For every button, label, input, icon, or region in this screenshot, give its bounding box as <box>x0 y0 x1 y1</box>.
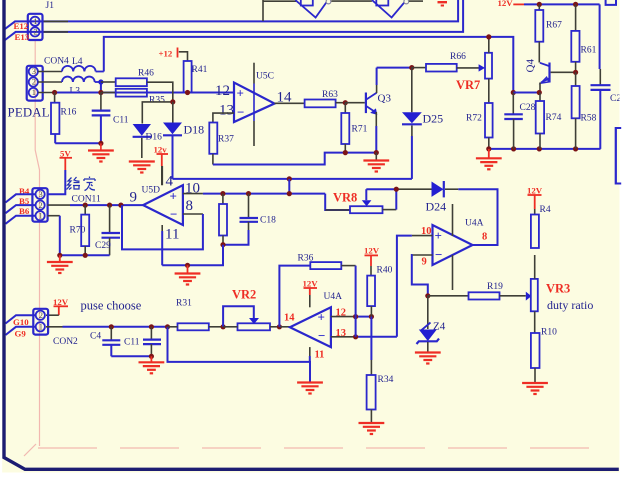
junction R61 top <box>573 2 578 7</box>
junction pin10 resistor <box>220 191 225 196</box>
capacitor C11b <box>143 327 161 357</box>
pink dashed revision line <box>38 447 606 449</box>
svg-text:U5D: U5D <box>142 186 161 196</box>
ground under CON11 bus <box>47 255 73 273</box>
svg-text:R67: R67 <box>546 21 562 31</box>
junction VR8 D24 <box>394 187 399 192</box>
junction Q3 emitter ground <box>374 150 379 155</box>
schmitt buffer gate 1 (cropped) <box>295 0 331 18</box>
junction rail to pin10 <box>287 176 292 181</box>
wire G9 diagonal <box>6 327 36 335</box>
resistor R67 <box>535 4 543 62</box>
wire net E13 second top wire <box>5 0 463 40</box>
junction D25 top <box>409 65 414 70</box>
wire CON11 pin2 to U5D pin9 <box>48 204 70 206</box>
svg-text:C11: C11 <box>113 116 129 126</box>
wire U4A pin10 input <box>397 236 433 337</box>
wire CON11 pin1 to ground <box>48 215 60 217</box>
potentiometer VR3 <box>526 255 538 333</box>
resistor R36 <box>279 262 355 337</box>
svg-text:puse choose: puse choose <box>81 299 142 313</box>
wire CON4 pin3 stub <box>38 71 62 73</box>
junction pin13 riser <box>353 334 358 339</box>
svg-text:R19: R19 <box>487 282 503 292</box>
junction C4 top <box>109 324 114 329</box>
node B junction <box>98 90 103 95</box>
svg-text:R37: R37 <box>218 135 234 145</box>
wire 12v to U5D V+ <box>161 166 163 185</box>
svg-text:R34: R34 <box>378 375 394 385</box>
svg-text:3: 3 <box>39 189 43 199</box>
resistor R41 <box>184 61 192 93</box>
wire VR8 node to D24 <box>366 188 431 190</box>
svg-text:Z4: Z4 <box>433 321 446 333</box>
wire D16 link <box>142 102 173 124</box>
resistor R34 <box>367 375 376 423</box>
resistor R4 <box>531 215 539 249</box>
svg-text:12: 12 <box>215 83 230 99</box>
svg-text:12V: 12V <box>364 246 380 256</box>
diode D16 <box>133 124 151 158</box>
ground under C11 <box>88 143 114 161</box>
wire B5 diagonal <box>6 205 36 213</box>
capacitor C28 <box>504 93 523 149</box>
ground under U4A lower <box>297 383 323 394</box>
svg-text:Q4: Q4 <box>525 59 537 73</box>
junction C11b top <box>149 324 154 329</box>
svg-text:R10: R10 <box>541 328 557 338</box>
svg-text:2: 2 <box>39 310 43 320</box>
svg-text:U4A: U4A <box>465 219 484 229</box>
svg-text:VR3: VR3 <box>546 282 570 296</box>
op-amp U5D <box>143 185 183 225</box>
resistor R37 <box>209 123 217 165</box>
svg-text:8: 8 <box>186 198 194 214</box>
junction C29 top <box>107 203 112 208</box>
wire ground bus CON11 <box>60 254 110 256</box>
wire U4A pin13 <box>331 336 397 338</box>
svg-text:C28: C28 <box>520 103 536 113</box>
red power bar symbol top <box>438 2 448 5</box>
wire gate2 output <box>409 0 423 2</box>
svg-text:G10: G10 <box>13 317 29 327</box>
svg-text:9: 9 <box>130 190 138 206</box>
svg-text:12V: 12V <box>303 279 319 289</box>
resistor R40 <box>367 276 375 317</box>
cropped box bottom at top right <box>606 0 616 5</box>
svg-text:8: 8 <box>482 232 487 243</box>
inductor L3 <box>62 77 101 82</box>
capacitor C18 <box>223 194 258 245</box>
svg-text:D24: D24 <box>426 200 447 214</box>
wire 5V to CON11 pin3 <box>48 170 66 194</box>
op-amp U4A lower <box>290 307 331 347</box>
svg-text:R4: R4 <box>540 205 551 215</box>
supply rail pin4 wire <box>173 178 412 180</box>
svg-text:2: 2 <box>39 200 43 210</box>
junction bus C28 <box>486 146 491 151</box>
svg-text:3: 3 <box>32 66 36 76</box>
junction ground node <box>98 141 103 146</box>
wire Q3 collector rail <box>377 67 412 69</box>
svg-text:−: − <box>237 105 244 120</box>
ground bus right <box>489 148 601 150</box>
zener diode Z4 <box>417 296 440 353</box>
wire G9 signal to R31 <box>46 326 168 328</box>
junction R16 top <box>52 90 57 95</box>
ground symbol right bus <box>476 149 502 169</box>
wire between gates <box>331 0 372 2</box>
wire D25 top stub <box>411 68 413 113</box>
diode D25 <box>402 112 422 136</box>
wire J1 pin2 stub <box>43 31 69 33</box>
svg-text:11: 11 <box>165 227 179 243</box>
resistor R35 <box>101 89 147 97</box>
resistor R46 <box>101 78 173 102</box>
wire U5C output pin14 <box>275 102 305 104</box>
svg-text:VR8: VR8 <box>333 191 357 205</box>
svg-text:D16: D16 <box>146 133 163 143</box>
capacitor C11 <box>92 93 111 144</box>
svg-text:R46: R46 <box>138 69 154 79</box>
svg-text:B6: B6 <box>19 206 30 216</box>
op-amp U4A upper <box>433 204 473 290</box>
wire CON4 pin2 stub <box>38 81 62 83</box>
power port 5V <box>60 149 73 171</box>
junction VR7 top <box>486 34 491 39</box>
svg-text:1: 1 <box>39 210 43 220</box>
svg-text:2: 2 <box>33 27 37 37</box>
resistor R74 <box>536 93 544 149</box>
power port 12V at CON2 <box>46 297 69 315</box>
svg-text:C11: C11 <box>124 338 140 348</box>
resistor R10 <box>531 333 540 383</box>
junction R70 top <box>83 203 88 208</box>
schmitt buffer gate 2 (cropped) <box>372 0 409 18</box>
wire pin11 ground bus <box>162 245 223 266</box>
gate U? input wire black top <box>263 0 296 2</box>
junction Q4 base R61 R58 <box>573 70 578 75</box>
wire U4A pin12 <box>331 316 372 318</box>
svg-text:U5C: U5C <box>256 72 274 82</box>
svg-text:12V: 12V <box>498 0 514 8</box>
power port 12V at R40 <box>364 246 380 276</box>
wire R16 bottom to C11 bottom <box>55 142 101 144</box>
svg-text:2: 2 <box>32 77 36 87</box>
svg-text:13: 13 <box>219 103 234 119</box>
capacitor C29 <box>102 205 121 255</box>
power port 12V at U4A lower <box>303 279 319 308</box>
junction cap bus <box>149 354 154 359</box>
svg-text:D18: D18 <box>184 123 205 137</box>
wire gate input vertical <box>262 0 264 21</box>
svg-text:PEDAL: PEDAL <box>8 106 50 120</box>
wire C28 node to Q4 emitter <box>513 92 539 94</box>
svg-text:+12: +12 <box>159 49 173 59</box>
svg-text:L4: L4 <box>72 57 83 67</box>
wire Q3 base <box>345 102 365 104</box>
svg-text:4: 4 <box>166 174 174 190</box>
diode D24 <box>432 181 444 197</box>
wire to U4A pin14 <box>279 326 290 328</box>
resistor R72 <box>485 103 493 149</box>
svg-text:G9: G9 <box>15 329 27 339</box>
svg-text:C4: C4 <box>90 332 101 342</box>
svg-text:1: 1 <box>33 16 37 26</box>
resistor R19 <box>428 292 526 299</box>
potentiometer VR8 <box>325 189 396 213</box>
resistor R71 <box>341 103 349 153</box>
svg-text:C29: C29 <box>95 241 111 251</box>
power port 12v at D16 <box>154 145 169 186</box>
junction U5D ground <box>185 263 190 268</box>
svg-text:R63: R63 <box>322 90 338 100</box>
svg-text:+: + <box>170 189 177 204</box>
svg-text:R70: R70 <box>70 226 86 236</box>
svg-text:VR7: VR7 <box>456 78 480 92</box>
junction pin12 R36 riser <box>353 314 358 319</box>
white left sliver <box>0 0 2 480</box>
connector CON11 <box>32 188 47 222</box>
svg-text:11: 11 <box>315 350 325 361</box>
svg-text:Q3: Q3 <box>378 93 392 105</box>
svg-text:R66: R66 <box>450 52 466 62</box>
svg-text:E12: E12 <box>14 21 29 31</box>
svg-text:VR2: VR2 <box>232 288 256 302</box>
cropped component bracket overlap <box>616 128 621 184</box>
svg-text:R71: R71 <box>352 125 368 135</box>
svg-text:R40: R40 <box>377 266 393 276</box>
svg-text:R72: R72 <box>466 114 482 124</box>
node A junction <box>98 79 103 84</box>
wire U5D pin10 net <box>183 179 350 210</box>
ground under R34 <box>359 423 385 434</box>
label 给定 (Chinese) <box>67 177 96 191</box>
ground under Q3 emitter <box>363 153 389 172</box>
junction feedback riser <box>118 203 123 208</box>
junction pin12 R40 <box>369 314 374 319</box>
svg-text:12V: 12V <box>527 186 543 196</box>
wire D18 top stub <box>172 102 174 123</box>
resistor R70 <box>81 205 89 255</box>
wire U4A pin9 loop <box>412 255 433 296</box>
white bottom margin <box>0 473 640 480</box>
wire R37 bottom to emitter bus <box>213 153 376 165</box>
wire U5D pin11 <box>161 225 163 265</box>
svg-text:CON2: CON2 <box>53 337 78 347</box>
white right margin <box>620 0 640 480</box>
junction C18 resistor bottom <box>220 242 225 247</box>
svg-text:+: + <box>435 228 442 243</box>
resistor R61 <box>571 4 579 72</box>
junction C28 top node <box>511 90 516 95</box>
svg-text:−: − <box>435 247 442 262</box>
pink guide line <box>35 41 39 446</box>
svg-text:R36: R36 <box>298 254 314 264</box>
resistor R63 <box>305 100 346 108</box>
junction pin10 rail <box>287 191 292 196</box>
diode D18 <box>163 123 182 179</box>
resistor R58 <box>572 72 580 149</box>
wire U5C pin13 <box>213 113 234 122</box>
junction R63 right <box>343 100 348 105</box>
resistor R31 <box>168 323 224 330</box>
wire U5D pin8 feedback <box>183 213 203 215</box>
junction bus left <box>57 253 62 258</box>
svg-text:CON4: CON4 <box>44 57 69 67</box>
svg-text:12v: 12v <box>154 145 168 155</box>
potentiometer VR2 <box>223 306 279 330</box>
junction D18 top <box>170 99 175 104</box>
cropped component bracket right edge <box>616 128 621 184</box>
svg-text:R31: R31 <box>176 299 192 309</box>
capacitor C4 <box>102 327 120 357</box>
ground under U5D <box>175 265 201 284</box>
svg-text:R35: R35 <box>149 96 165 106</box>
svg-text:1: 1 <box>32 87 36 97</box>
transistor Q3 <box>366 68 377 153</box>
svg-text:14: 14 <box>284 313 295 324</box>
svg-text:E13: E13 <box>15 32 30 42</box>
svg-text:C18: C18 <box>260 216 276 226</box>
svg-text:−: − <box>318 328 325 343</box>
svg-text:−: − <box>170 207 177 222</box>
svg-text:duty ratio: duty ratio <box>547 298 593 312</box>
junction Z4 R19 <box>425 293 430 298</box>
wire cap ground bus <box>111 355 151 357</box>
wire D25 to supply rail <box>411 136 413 179</box>
svg-text:+: + <box>237 86 244 101</box>
junction VR2 out R36 <box>277 324 282 329</box>
ground under R10 <box>522 383 548 394</box>
junction R71 bottom <box>343 150 348 155</box>
pink corner diagonal <box>24 444 36 456</box>
wire B4 diagonal <box>6 194 36 202</box>
svg-text:R41: R41 <box>192 65 208 75</box>
wire U4A pin11 down <box>309 347 311 362</box>
wire J1 pin1 stub <box>43 20 69 22</box>
wire pedal signal to U5C pin12 <box>55 92 234 94</box>
power port +12 <box>159 48 188 62</box>
wire B6 diagonal <box>6 216 36 224</box>
wire node A to node B vertical <box>100 82 102 93</box>
wire CON4 pin1 stub <box>38 92 55 94</box>
power port 12V at R67 <box>498 0 525 8</box>
resistor R16 <box>51 93 59 144</box>
inductor L4 <box>62 66 104 72</box>
svg-text:R61: R61 <box>581 46 597 56</box>
junction R31 VR2 <box>221 324 226 329</box>
wire ground loop to U4A pin11 <box>168 327 311 383</box>
wire third long rail to C28 node <box>104 37 514 93</box>
junction pin10 C18 <box>246 191 251 196</box>
ground under C4 C11 <box>139 356 165 373</box>
capacitor C27 <box>591 4 611 149</box>
svg-text:R58: R58 <box>581 114 597 124</box>
svg-text:1: 1 <box>39 322 43 332</box>
svg-text:R16: R16 <box>61 108 77 118</box>
wire net E12 long top wire <box>5 0 458 29</box>
svg-text:U4A: U4A <box>324 292 343 302</box>
ground under D16 <box>129 162 155 173</box>
junction ground loop <box>165 324 170 329</box>
svg-text:+: + <box>318 310 325 325</box>
connector J1 <box>28 14 43 40</box>
unnamed resistor at U5D pin10 <box>219 194 227 245</box>
resistor R66 <box>412 64 479 72</box>
connector CON2 <box>33 309 48 335</box>
junction R41 bottom <box>185 90 190 95</box>
transistor Q4 <box>540 63 576 93</box>
power port 12V at R4 <box>527 186 543 215</box>
svg-text:9: 9 <box>422 257 427 268</box>
wire R40 to R34 <box>370 317 372 375</box>
potentiometer VR7 <box>479 37 492 103</box>
wire G10 diagonal <box>6 315 36 323</box>
svg-text:R74: R74 <box>546 113 562 123</box>
junction R67 top <box>537 2 542 7</box>
op-amp U5C <box>234 63 275 146</box>
ground under Z4 <box>415 353 441 364</box>
svg-text:D25: D25 <box>423 112 444 126</box>
wire 12V rail top right <box>524 3 600 5</box>
wire D24 to U4A output <box>445 189 498 245</box>
connector CON4 <box>27 66 43 101</box>
junction Q4 emitter <box>537 90 542 95</box>
svg-text:J1: J1 <box>46 1 55 11</box>
